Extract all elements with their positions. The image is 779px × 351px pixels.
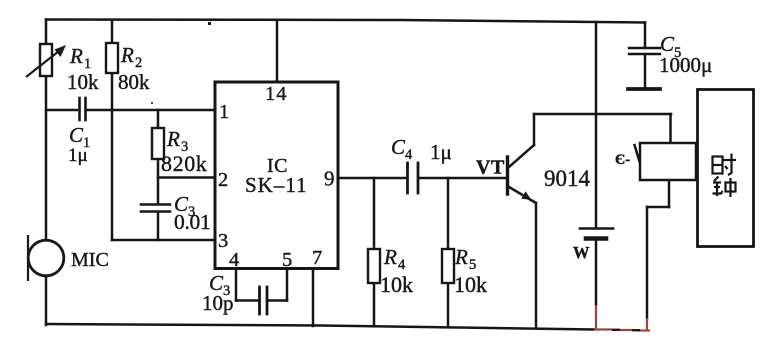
svg-text:VT: VT [476,157,505,179]
svg-text:2: 2 [218,169,228,191]
svg-text:10p: 10p [202,291,234,315]
svg-text:Є-: Є- [615,152,630,168]
svg-text:1μ: 1μ [430,140,452,164]
svg-text:4: 4 [229,249,239,271]
svg-text:SK–11: SK–11 [245,173,308,197]
svg-text:9014: 9014 [544,166,591,191]
svg-text:C: C [391,135,406,159]
svg-text:5: 5 [469,257,476,273]
svg-text:R: R [383,245,397,269]
svg-text:R: R [120,43,134,67]
svg-text:1000μ: 1000μ [659,53,712,77]
svg-text:R: R [69,44,83,68]
svg-text:14: 14 [265,83,288,105]
svg-text:C: C [69,123,84,147]
svg-text:2: 2 [135,55,142,71]
svg-text:R: R [166,127,180,151]
svg-text:10k: 10k [67,70,99,94]
svg-text:80k: 80k [118,70,150,94]
svg-text:4: 4 [398,257,406,273]
svg-text:10k: 10k [380,272,413,297]
svg-text:1: 1 [219,101,229,123]
svg-text:0.01: 0.01 [174,210,210,234]
svg-text:MIC: MIC [71,249,109,271]
svg-text:1μ: 1μ [68,145,88,166]
svg-text:W: W [573,243,590,262]
svg-text:5: 5 [282,249,292,271]
svg-text:3: 3 [218,230,228,252]
svg-text:9: 9 [324,167,335,191]
svg-text:7: 7 [312,247,322,269]
svg-text:R: R [454,245,468,269]
svg-text:4: 4 [405,147,413,163]
svg-text:820k: 820k [161,151,207,176]
svg-text:10k: 10k [454,272,487,297]
